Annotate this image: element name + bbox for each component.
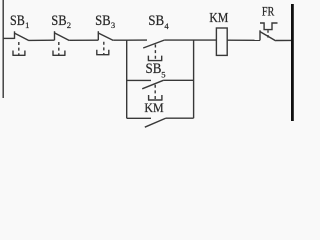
right rail — [291, 4, 294, 121]
svg-text:SB: SB — [146, 61, 162, 77]
wire: SB5 branch left — [127, 79, 151, 81]
wire: coil KM to FR — [227, 39, 260, 41]
wire: SB1 to SB2 — [29, 39, 55, 41]
pushbutton SB3 (NC) contact — [97, 31, 99, 40]
wire: SB2 to SB3 — [69, 39, 98, 41]
svg-text:KM: KM — [209, 10, 228, 25]
FR dashed link — [267, 30, 269, 38]
svg-text:KM: KM — [144, 101, 164, 115]
wire: KM contact branch left — [127, 117, 151, 119]
SB3 actuator dashed link — [103, 42, 105, 55]
SB1 button cap — [12, 51, 25, 56]
pushbutton SB4 (NO) contact — [143, 40, 164, 48]
pushbutton SB1 (NC) contact — [14, 31, 16, 39]
svg-text:4: 4 — [164, 21, 169, 31]
svg-text:FR: FR — [262, 5, 275, 19]
left rail — [2, 0, 4, 98]
SB5 actuator dashed link — [154, 85, 156, 100]
svg-text:SB: SB — [95, 13, 111, 29]
node B: right branch vertical — [193, 40, 195, 118]
svg-text:5: 5 — [161, 69, 165, 79]
SB3 button cap — [96, 50, 109, 55]
svg-text:2: 2 — [67, 20, 71, 30]
coil KM rectangle — [216, 28, 227, 55]
svg-text:SB: SB — [148, 13, 164, 29]
wire: left rail to SB1 — [3, 37, 14, 39]
svg-text:SB: SB — [51, 13, 67, 29]
SB5 button cap — [148, 95, 163, 100]
node A: left branch vertical — [126, 40, 128, 118]
SB2 button cap — [52, 51, 65, 56]
contact KM (NO self-holding) — [145, 118, 166, 127]
svg-text:1: 1 — [25, 20, 29, 30]
SB1 actuator dashed link — [18, 42, 20, 55]
pushbutton SB5 (NO) contact — [142, 80, 164, 89]
thermal relay FR (NC) contact — [259, 30, 261, 40]
svg-text:SB: SB — [10, 13, 25, 29]
wire: SB3 to node A — [113, 39, 147, 41]
SB2 actuator dashed link — [58, 42, 60, 55]
SB4 actuator dashed link — [154, 45, 156, 61]
pushbutton SB2 (NC) contact — [54, 31, 56, 40]
SB4 button cap — [148, 56, 163, 61]
wire: SB5 branch right — [164, 79, 194, 81]
svg-text:3: 3 — [111, 20, 115, 30]
FR thermal element — [260, 23, 278, 30]
wire: KM contact branch right — [166, 117, 194, 119]
wire: SB4 to node B — [164, 39, 216, 41]
wire: FR to right rail — [276, 39, 292, 41]
